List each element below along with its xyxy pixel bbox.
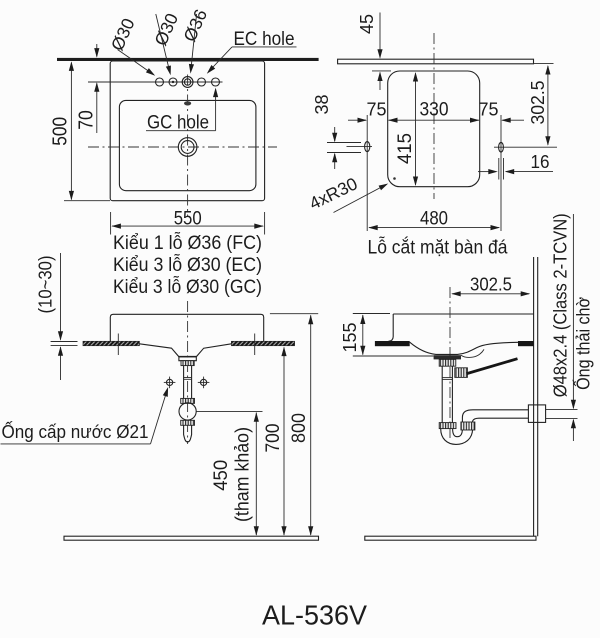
dim 155: [353, 313, 390, 315]
svg-text:700: 700: [262, 423, 284, 452]
svg-text:Ống thải chờ: Ống thải chờ: [573, 297, 594, 390]
supply point marker right: [201, 379, 207, 385]
svg-text:500: 500: [50, 117, 72, 146]
svg-text:(10~30): (10~30): [35, 256, 55, 314]
svg-text:550: 550: [174, 208, 202, 230]
bowl underside: [139, 344, 231, 357]
svg-text:450: 450: [211, 460, 232, 491]
dim 550: [110, 212, 112, 235]
drain locknut: [181, 361, 194, 366]
svg-text:Kiểu 1 lỗ Ø36 (FC): Kiểu 1 lỗ Ø36 (FC): [113, 232, 262, 254]
svg-text:38: 38: [311, 95, 332, 115]
dim 38: [327, 142, 361, 144]
tail pipe: [183, 366, 185, 399]
wall escutcheon flange: [528, 405, 545, 423]
dim 70: [96, 44, 98, 57]
counter slab left (hatched): [83, 341, 139, 345]
dim 415: [415, 73, 417, 185]
sink profile top: [393, 313, 533, 315]
dim 450: [255, 413, 257, 536]
dim 302.5 right: [534, 63, 554, 65]
svg-text:75: 75: [367, 100, 387, 120]
floor right: [365, 536, 536, 540]
trap union circle: [179, 403, 196, 420]
centerline of drain: [449, 287, 451, 441]
hole 5: [212, 78, 220, 86]
svg-text:AL-536V: AL-536V: [262, 600, 367, 631]
countertop edge bar: [338, 59, 534, 64]
stray mark: [393, 177, 396, 180]
svg-text:Ống cấp nước Ø21: Ống cấp nước Ø21: [2, 421, 149, 442]
svg-text:Ø48x2.4 (Class 2-TCVN): Ø48x2.4 (Class 2-TCVN): [550, 213, 571, 397]
counter section right (solid): [518, 341, 534, 346]
svg-text:155: 155: [339, 323, 360, 353]
svg-text:415: 415: [395, 133, 416, 164]
left faucet hole mark: [366, 115, 368, 231]
svg-text:(tham khảo): (tham khảo): [233, 427, 254, 522]
pipe end: [184, 425, 192, 442]
cutout rounded rectangle: [388, 71, 480, 187]
drain flange: [434, 355, 461, 359]
drain stub extension lines: [546, 409, 578, 411]
bowl section curve: [410, 342, 518, 354]
svg-text:75: 75: [479, 100, 499, 120]
dim (10~30) counter thickness: [60, 253, 62, 340]
wall double line: [533, 257, 535, 536]
4xR30 label: [334, 185, 387, 213]
svg-text:480: 480: [420, 208, 448, 230]
pop-up rod outlet: [455, 368, 468, 378]
dim 480: [369, 227, 499, 229]
basin outer rectangle: [110, 61, 264, 201]
horizontal centerline: [88, 146, 277, 148]
slot 16: [498, 158, 500, 180]
supply point marker left: [167, 379, 173, 385]
trap coupling nut: [439, 423, 456, 429]
centerline: [187, 301, 189, 444]
sink front edge: [389, 314, 394, 341]
counter section left (solid): [375, 341, 410, 346]
vertical centerline: [187, 75, 189, 217]
lower nut: [181, 420, 195, 425]
P-trap U bend: [441, 424, 473, 444]
trap riser nut: [461, 422, 475, 430]
drain stub dim leaders: [572, 214, 574, 408]
svg-text:Kiểu 3 lỗ Ø30 (EC): Kiểu 3 lỗ Ø30 (EC): [113, 254, 262, 276]
right faucet hole mark: [500, 115, 502, 231]
clamp bolt left: [117, 334, 119, 356]
dim 800 extension: [270, 313, 318, 315]
svg-text:302.5: 302.5: [527, 81, 548, 125]
dim 700: [283, 348, 285, 536]
countertop edge line: [57, 58, 319, 61]
pop-up rod: [467, 359, 518, 374]
svg-text:16: 16: [531, 152, 550, 172]
svg-text:800: 800: [288, 413, 310, 443]
svg-text:Lỗ cắt mặt bàn đá: Lỗ cắt mặt bàn đá: [368, 237, 508, 259]
basin body outline: [110, 314, 263, 341]
overflow pocket: [461, 349, 484, 357]
drain locknut: [439, 359, 456, 366]
counter slab right (hatched): [231, 341, 294, 345]
svg-text:45: 45: [357, 14, 377, 34]
tail pipe: [441, 366, 443, 422]
svg-text:70: 70: [75, 110, 97, 130]
svg-text:Kiểu 3 lỗ Ø30 (GC): Kiểu 3 lỗ Ø30 (GC): [113, 276, 262, 298]
holes centerline: [88, 81, 223, 83]
reference line 450: [196, 410, 262, 412]
hole 1: [156, 78, 164, 86]
dim 500: [70, 63, 72, 200]
svg-text:302.5: 302.5: [470, 275, 512, 295]
cutout vertical centerline: [433, 33, 435, 199]
trap elbow to wall: [462, 410, 528, 422]
basin inner bowl rounded rectangle: [119, 100, 256, 190]
floor left: [64, 536, 319, 540]
svg-text:330: 330: [420, 100, 449, 121]
overflow slot: [184, 101, 191, 105]
hole 3 center FC hole (double ring): [182, 77, 193, 88]
hole 2 with center dot: [169, 78, 177, 86]
hole 4: [198, 78, 206, 86]
dim 800: [310, 315, 312, 535]
drain flange: [179, 357, 196, 361]
drain rings: [178, 138, 197, 157]
coupling nut: [181, 398, 195, 403]
clamp bolt right: [254, 334, 256, 356]
